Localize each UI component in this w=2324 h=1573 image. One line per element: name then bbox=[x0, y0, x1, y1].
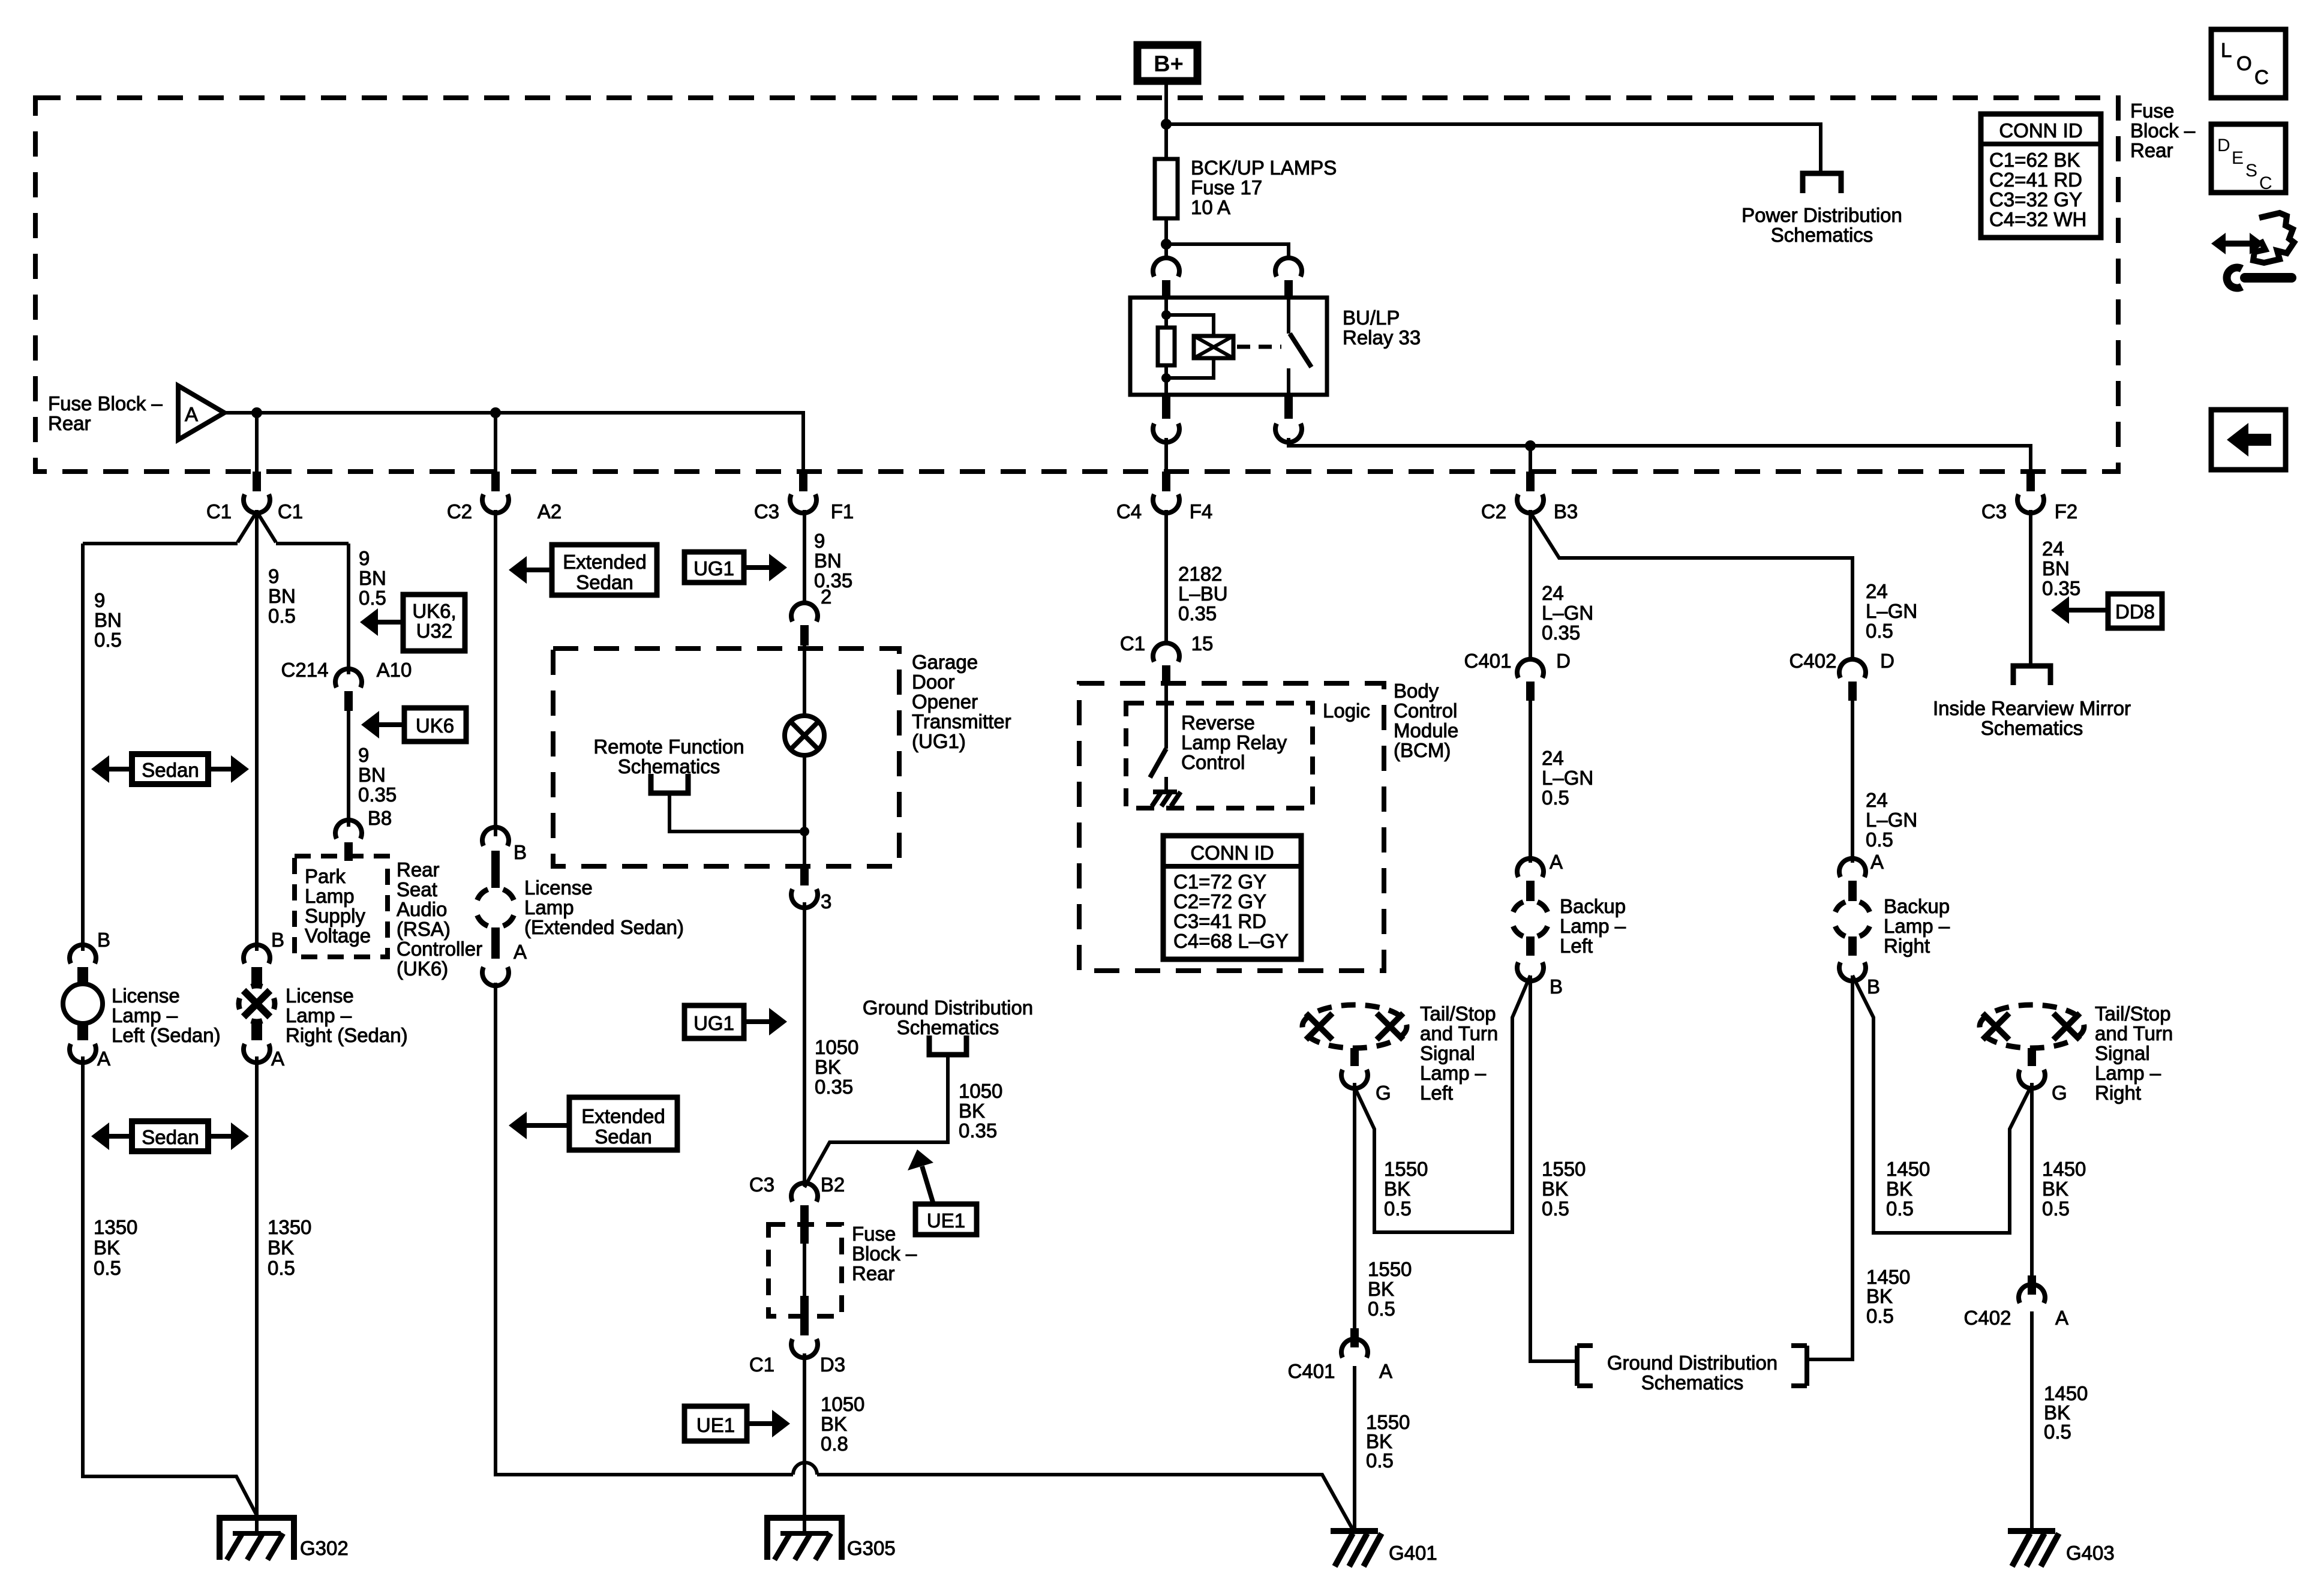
svg-text:Fuse: Fuse bbox=[2130, 100, 2174, 122]
svg-text:Body: Body bbox=[1394, 680, 1439, 702]
svg-text:0.5: 0.5 bbox=[2042, 1197, 2070, 1220]
svg-text:24: 24 bbox=[2042, 538, 2064, 560]
svg-text:C2: C2 bbox=[447, 500, 472, 523]
svg-text:Left: Left bbox=[1420, 1082, 1453, 1104]
svg-text:Lamp –: Lamp – bbox=[1884, 915, 1950, 937]
svg-text:Rear: Rear bbox=[852, 1262, 895, 1284]
svg-text:Left: Left bbox=[1560, 935, 1593, 957]
coil relay winding bbox=[1166, 315, 1214, 378]
wire lamp to node bbox=[803, 755, 806, 866]
svg-text:3: 3 bbox=[821, 890, 831, 912]
table CONN ID BCM bbox=[1163, 836, 1301, 959]
logic dashed box bbox=[1126, 703, 1313, 808]
svg-text:D: D bbox=[2217, 136, 2230, 155]
wire arrow UK6,U32 bbox=[377, 620, 403, 625]
svg-text:UE1: UE1 bbox=[696, 1414, 735, 1436]
wire through fuse block small box bbox=[803, 1224, 806, 1296]
svg-text:BK: BK bbox=[1384, 1178, 1410, 1200]
svg-text:C1: C1 bbox=[1120, 632, 1145, 655]
svg-text:Extended: Extended bbox=[581, 1105, 665, 1127]
svg-text:C214: C214 bbox=[281, 659, 329, 681]
connector relay pin 1 bbox=[1153, 258, 1179, 277]
svg-text:1350: 1350 bbox=[268, 1216, 311, 1238]
svg-text:C402: C402 bbox=[1964, 1307, 2011, 1329]
svg-text:0.5: 0.5 bbox=[1866, 828, 1893, 851]
wire backup left B to ground distribution bbox=[1530, 975, 1577, 1361]
svg-text:(RSA): (RSA) bbox=[397, 918, 451, 940]
svg-text:24: 24 bbox=[1542, 582, 1564, 604]
svg-text:Lamp –: Lamp – bbox=[2095, 1062, 2161, 1084]
icon LOC box bbox=[2211, 29, 2286, 98]
svg-text:L–GN: L–GN bbox=[1542, 767, 1593, 789]
svg-text:UE1: UE1 bbox=[927, 1209, 965, 1232]
lamp Tail Stop Turn Right bbox=[1980, 1005, 2084, 1048]
node junction to B3 bbox=[1525, 440, 1536, 451]
svg-text:Schematics: Schematics bbox=[897, 1016, 999, 1038]
wire backup right B to ground distribution bbox=[1807, 975, 1852, 1359]
fuse block Rear dashed border bbox=[35, 98, 2118, 472]
fuse F17 BCK/UP LAMPS 10A bbox=[1164, 124, 1168, 244]
icon DESC box bbox=[2211, 124, 2286, 193]
wire F1 column top bbox=[803, 510, 806, 605]
svg-text:0.5: 0.5 bbox=[268, 1257, 295, 1279]
connector relay pin 3 bbox=[1284, 395, 1293, 419]
svg-text:Lamp –: Lamp – bbox=[112, 1004, 178, 1026]
svg-text:Opener: Opener bbox=[912, 691, 978, 713]
svg-text:0.35: 0.35 bbox=[814, 569, 852, 592]
svg-text:B: B bbox=[1867, 975, 1880, 998]
svg-text:Right: Right bbox=[2095, 1082, 2141, 1104]
svg-text:C402: C402 bbox=[1789, 650, 1837, 672]
svg-text:B+: B+ bbox=[1154, 52, 1184, 77]
ground G305 bbox=[767, 1518, 842, 1560]
svg-text:0.35: 0.35 bbox=[959, 1119, 997, 1142]
svg-text:Fuse: Fuse bbox=[852, 1223, 896, 1245]
svg-text:B8: B8 bbox=[368, 807, 392, 829]
wire arrow Extended Sedan lower bbox=[526, 1123, 569, 1128]
svg-text:A: A bbox=[97, 1047, 110, 1070]
svg-text:B: B bbox=[271, 929, 284, 951]
wire arrow Extended Sedan upper bbox=[526, 568, 552, 572]
wire dashed actuation link bbox=[1237, 345, 1281, 349]
svg-text:24: 24 bbox=[1866, 580, 1888, 602]
svg-text:D: D bbox=[1880, 650, 1894, 672]
svg-text:0.5: 0.5 bbox=[268, 605, 296, 627]
svg-text:L–GN: L–GN bbox=[1542, 602, 1593, 624]
reference box UG1 lower bbox=[684, 1005, 744, 1038]
wire B3 column down bbox=[1529, 510, 1532, 661]
svg-text:Lamp –: Lamp – bbox=[1560, 915, 1626, 937]
wire ground distribution to B2 bbox=[804, 1053, 948, 1187]
node bus C1 bbox=[251, 407, 262, 418]
svg-text:B3: B3 bbox=[1554, 500, 1578, 523]
svg-text:0.5: 0.5 bbox=[1366, 1449, 1394, 1472]
svg-text:BK: BK bbox=[1866, 1285, 1893, 1307]
wire F2 column down bbox=[2029, 510, 2032, 666]
svg-text:1450: 1450 bbox=[1886, 1158, 1930, 1180]
lamp garage door opener bbox=[785, 716, 824, 755]
svg-text:0.5: 0.5 bbox=[1542, 1197, 1569, 1220]
svg-text:Lamp: Lamp bbox=[524, 896, 574, 918]
svg-text:Park: Park bbox=[305, 865, 346, 887]
svg-text:G302: G302 bbox=[300, 1537, 349, 1559]
svg-text:0.5: 0.5 bbox=[1866, 620, 1893, 642]
wire F1 column middle bbox=[803, 902, 806, 1186]
switch relay contact bbox=[1287, 298, 1290, 395]
connector B8 RSA bbox=[335, 820, 362, 839]
wire A2 column down bbox=[494, 510, 497, 836]
wire relay out right to F2 bbox=[1289, 438, 2031, 472]
svg-text:Supply: Supply bbox=[305, 905, 365, 927]
svg-text:BK: BK bbox=[815, 1056, 841, 1078]
garage door opener transmitter dashed box bbox=[553, 649, 899, 866]
svg-text:C4=68 L–GY: C4=68 L–GY bbox=[1173, 930, 1289, 952]
svg-text:(UK6): (UK6) bbox=[397, 957, 448, 980]
wire bus drop C1 bbox=[255, 413, 259, 472]
svg-text:License: License bbox=[286, 984, 354, 1007]
svg-text:C401: C401 bbox=[1288, 1360, 1335, 1382]
svg-text:0.8: 0.8 bbox=[821, 1433, 848, 1455]
reference box Sedan lower bbox=[132, 1121, 208, 1151]
reference box Extended Sedan upper bbox=[552, 545, 657, 595]
svg-text:A: A bbox=[185, 403, 198, 425]
svg-text:Control: Control bbox=[1394, 700, 1457, 722]
svg-text:L–BU: L–BU bbox=[1178, 583, 1228, 605]
svg-text:License: License bbox=[112, 984, 180, 1007]
svg-text:C3: C3 bbox=[749, 1173, 774, 1196]
svg-text:C1=62 BK: C1=62 BK bbox=[1989, 149, 2080, 171]
connector C2-A2 fuse block bbox=[491, 472, 500, 491]
svg-text:1550: 1550 bbox=[1542, 1158, 1586, 1180]
svg-text:Voltage: Voltage bbox=[305, 924, 371, 947]
svg-text:0.5: 0.5 bbox=[1368, 1298, 1395, 1320]
svg-text:BK: BK bbox=[2042, 1178, 2068, 1200]
off-page bracket ground distribution upper bbox=[929, 1035, 966, 1055]
svg-text:A: A bbox=[271, 1047, 284, 1070]
svg-text:Schematics: Schematics bbox=[1641, 1371, 1744, 1394]
wire arrow Sedan right bbox=[208, 767, 232, 772]
svg-text:Schematics: Schematics bbox=[1771, 224, 1873, 246]
svg-text:BK: BK bbox=[1368, 1278, 1394, 1300]
node fuse output junction bbox=[1161, 239, 1172, 250]
svg-text:Fuse 17: Fuse 17 bbox=[1191, 176, 1262, 199]
svg-text:L–GN: L–GN bbox=[1866, 600, 1917, 622]
svg-text:F2: F2 bbox=[2055, 500, 2078, 523]
svg-text:BN: BN bbox=[2042, 557, 2070, 580]
svg-text:A: A bbox=[1550, 851, 1563, 873]
svg-text:C1: C1 bbox=[749, 1353, 774, 1376]
svg-text:0.5: 0.5 bbox=[1866, 1305, 1894, 1327]
icon back arrow box bbox=[2211, 410, 2286, 470]
svg-text:1550: 1550 bbox=[1368, 1258, 1412, 1280]
body control module dashed box bbox=[1079, 683, 1384, 971]
wire arrow UG1 upper bbox=[744, 565, 770, 570]
svg-text:Extended: Extended bbox=[563, 551, 646, 573]
svg-text:CONN ID: CONN ID bbox=[1190, 842, 1274, 864]
wire B3 branch to C402 column bbox=[1530, 512, 1852, 661]
svg-text:BK: BK bbox=[94, 1236, 120, 1259]
reference box Sedan upper bbox=[132, 754, 208, 784]
svg-text:Ground Distribution: Ground Distribution bbox=[863, 996, 1033, 1019]
svg-text:Schematics: Schematics bbox=[618, 755, 720, 778]
svg-text:Backup: Backup bbox=[1884, 895, 1950, 917]
svg-text:Audio: Audio bbox=[397, 898, 447, 920]
svg-text:O: O bbox=[2236, 52, 2252, 74]
svg-text:2: 2 bbox=[821, 586, 831, 608]
svg-text:C401: C401 bbox=[1464, 650, 1512, 672]
wire C402-D to backup lamp right bbox=[1851, 701, 1854, 863]
svg-text:BCK/UP LAMPS: BCK/UP LAMPS bbox=[1191, 157, 1337, 179]
svg-text:CONN ID: CONN ID bbox=[1999, 119, 2082, 142]
relay BU/LP Relay 33 bbox=[1130, 298, 1327, 395]
svg-text:Right (Sedan): Right (Sedan) bbox=[286, 1024, 408, 1046]
off-page bracket ground distribution left bbox=[1577, 1346, 1593, 1386]
svg-text:UG1: UG1 bbox=[693, 1012, 734, 1034]
connector C3-F2 fuse block bbox=[2026, 472, 2035, 491]
svg-text:BK: BK bbox=[268, 1236, 294, 1259]
svg-text:and Turn: and Turn bbox=[2095, 1022, 2173, 1044]
svg-text:Control: Control bbox=[1181, 751, 1245, 773]
node bus junction bbox=[1161, 119, 1172, 130]
svg-text:UG1: UG1 bbox=[693, 557, 734, 580]
svg-text:9: 9 bbox=[268, 565, 279, 587]
reference box Extended Sedan lower bbox=[569, 1097, 677, 1150]
wire into garage lamp bbox=[803, 646, 806, 716]
svg-text:Sedan: Sedan bbox=[576, 571, 633, 593]
node Park Lamp Supply Voltage box bbox=[295, 856, 388, 957]
svg-text:C2=72 GY: C2=72 GY bbox=[1173, 890, 1266, 912]
wire junction to C2-B3 bbox=[1529, 446, 1532, 472]
svg-text:G403: G403 bbox=[2066, 1542, 2115, 1564]
svg-text:0.35: 0.35 bbox=[815, 1076, 853, 1098]
svg-text:C4=32 WH: C4=32 WH bbox=[1989, 208, 2086, 230]
svg-text:Right: Right bbox=[1884, 935, 1930, 957]
wire lamps to grounds bbox=[83, 1056, 256, 1514]
wire fuse to relay pins bbox=[1166, 244, 1289, 260]
svg-text:Sedan: Sedan bbox=[142, 759, 199, 781]
wire hop over G305 drop bbox=[793, 1463, 817, 1475]
svg-text:C2: C2 bbox=[1481, 500, 1506, 523]
svg-text:Schematics: Schematics bbox=[1981, 717, 2083, 739]
wire F4 column down bbox=[1164, 510, 1168, 645]
wire C214 to B8 bbox=[347, 711, 350, 827]
svg-text:9: 9 bbox=[358, 744, 369, 766]
svg-text:A: A bbox=[2055, 1307, 2068, 1329]
fuse block rear small dashed box bbox=[768, 1224, 842, 1316]
svg-text:Signal: Signal bbox=[2095, 1042, 2150, 1064]
svg-text:G: G bbox=[2052, 1082, 2067, 1104]
svg-text:Inside Rearview Mirror: Inside Rearview Mirror bbox=[1933, 697, 2131, 719]
wire arrow Sedan lower right bbox=[208, 1134, 232, 1139]
reference box UK6,U32 bbox=[403, 595, 465, 651]
svg-text:0.5: 0.5 bbox=[359, 587, 386, 609]
svg-text:C1: C1 bbox=[278, 500, 303, 523]
battery feed B+ bbox=[1137, 45, 1197, 81]
wire bus to power distribution bbox=[1166, 124, 1821, 173]
svg-text:BK: BK bbox=[1886, 1178, 1912, 1200]
svg-text:Backup: Backup bbox=[1560, 895, 1626, 917]
svg-text:BU/LP: BU/LP bbox=[1343, 307, 1400, 329]
svg-text:A: A bbox=[1870, 851, 1884, 873]
wire backup right B to tail lamp right join bbox=[1852, 975, 2031, 1233]
svg-text:D3: D3 bbox=[820, 1353, 845, 1376]
svg-text:Tail/Stop: Tail/Stop bbox=[1420, 1002, 1496, 1025]
wire arrow UG1 lower bbox=[744, 1019, 770, 1024]
svg-text:Left (Sedan): Left (Sedan) bbox=[112, 1024, 221, 1046]
reference box UE1 diagonal bbox=[915, 1204, 977, 1235]
svg-text:S: S bbox=[2245, 161, 2257, 181]
wire arrow UE1 lower bbox=[747, 1421, 773, 1426]
svg-text:Sedan: Sedan bbox=[594, 1125, 651, 1148]
svg-text:E: E bbox=[2232, 148, 2244, 168]
svg-text:U32: U32 bbox=[416, 620, 453, 642]
svg-text:UK6: UK6 bbox=[416, 715, 454, 737]
svg-text:Rear: Rear bbox=[2130, 139, 2173, 161]
svg-text:A10: A10 bbox=[377, 659, 412, 681]
reference box UG1 upper bbox=[684, 552, 744, 583]
svg-text:1550: 1550 bbox=[1384, 1158, 1428, 1180]
svg-text:BN: BN bbox=[268, 585, 296, 607]
svg-text:F4: F4 bbox=[1190, 500, 1213, 523]
svg-text:Lamp: Lamp bbox=[305, 885, 355, 907]
svg-text:A: A bbox=[1379, 1360, 1392, 1382]
svg-text:C3: C3 bbox=[754, 500, 779, 523]
svg-text:C: C bbox=[2259, 173, 2272, 193]
svg-text:BK: BK bbox=[1542, 1178, 1568, 1200]
svg-text:and Turn: and Turn bbox=[1420, 1022, 1498, 1044]
reference box DD8 bbox=[2108, 594, 2162, 628]
wire C402-A to G403 bbox=[2030, 1311, 2034, 1531]
svg-text:Ground Distribution: Ground Distribution bbox=[1607, 1352, 1777, 1374]
triangle A fuse block feed bbox=[178, 386, 224, 440]
svg-text:Garage: Garage bbox=[912, 651, 978, 673]
svg-text:B: B bbox=[514, 841, 527, 863]
svg-text:C4: C4 bbox=[1116, 500, 1142, 523]
svg-text:G401: G401 bbox=[1389, 1542, 1437, 1564]
svg-text:Block –: Block – bbox=[2130, 119, 2196, 142]
connector C4-F4 fuse block bbox=[1162, 472, 1170, 491]
svg-text:Reverse: Reverse bbox=[1181, 712, 1255, 734]
connector C402-A bbox=[2028, 1275, 2036, 1295]
wire C401-A to G401 bbox=[1353, 1366, 1356, 1531]
wire arrow DD8 bbox=[2068, 608, 2108, 613]
wire backup left B to tail lamp ground join bbox=[1355, 975, 1530, 1232]
svg-text:15: 15 bbox=[1191, 632, 1214, 655]
wire arrow UE1 diagonal bbox=[922, 1166, 933, 1204]
wire tail left G to C401-A bbox=[1353, 1083, 1356, 1328]
svg-text:Rear: Rear bbox=[48, 412, 91, 434]
svg-text:9: 9 bbox=[814, 530, 825, 552]
svg-text:Lamp –: Lamp – bbox=[1420, 1062, 1487, 1084]
svg-text:C1: C1 bbox=[206, 500, 232, 523]
svg-text:L–GN: L–GN bbox=[1866, 809, 1917, 831]
svg-text:Seat: Seat bbox=[397, 878, 437, 900]
svg-text:C1=72 GY: C1=72 GY bbox=[1173, 870, 1266, 893]
svg-text:0.5: 0.5 bbox=[2044, 1421, 2071, 1443]
svg-text:A: A bbox=[514, 941, 527, 963]
svg-text:BK: BK bbox=[821, 1413, 847, 1435]
svg-text:1050: 1050 bbox=[815, 1036, 858, 1058]
svg-text:9: 9 bbox=[94, 589, 105, 611]
svg-text:0.35: 0.35 bbox=[2042, 577, 2080, 599]
connector C2-B3 fuse block bbox=[1526, 472, 1535, 491]
svg-text:1050: 1050 bbox=[959, 1080, 1002, 1102]
reference box UK6 bbox=[404, 708, 466, 742]
svg-text:0.5: 0.5 bbox=[1886, 1197, 1914, 1220]
svg-text:A2: A2 bbox=[538, 500, 562, 523]
ground G302 bbox=[220, 1518, 294, 1560]
svg-text:Lamp Relay: Lamp Relay bbox=[1181, 731, 1287, 754]
wire left branch down bbox=[81, 544, 85, 951]
svg-text:C3=41 RD: C3=41 RD bbox=[1173, 910, 1266, 932]
svg-text:C: C bbox=[2254, 66, 2269, 88]
svg-text:G: G bbox=[1376, 1082, 1391, 1104]
svg-text:0.5: 0.5 bbox=[94, 629, 122, 651]
svg-text:Signal: Signal bbox=[1420, 1042, 1475, 1064]
svg-text:B: B bbox=[1550, 975, 1563, 998]
connector pin 3 garage door opener bbox=[800, 866, 809, 885]
connector C1-D3 bbox=[791, 1339, 818, 1358]
svg-text:BN: BN bbox=[814, 550, 842, 572]
svg-text:0.5: 0.5 bbox=[1384, 1197, 1412, 1220]
node garage lamp junction bbox=[800, 827, 809, 836]
connector relay pin 4 bbox=[1162, 395, 1170, 419]
svg-text:0.35: 0.35 bbox=[1542, 622, 1580, 644]
svg-text:DD8: DD8 bbox=[2115, 601, 2155, 623]
off-page bracket Power Distribution bbox=[1803, 173, 1841, 193]
svg-text:Sedan: Sedan bbox=[142, 1126, 199, 1148]
node bus A2 bbox=[490, 407, 501, 418]
svg-text:Module: Module bbox=[1394, 719, 1458, 742]
connector C401-A bbox=[1350, 1328, 1359, 1347]
svg-text:Power Distribution: Power Distribution bbox=[1742, 204, 1902, 226]
wire remote function to lamp node bbox=[669, 792, 804, 831]
svg-text:0.5: 0.5 bbox=[1542, 786, 1569, 809]
svg-text:Door: Door bbox=[912, 671, 955, 693]
svg-text:Logic: Logic bbox=[1323, 700, 1370, 722]
off-page bracket inside rearview mirror bbox=[2013, 666, 2050, 685]
svg-text:(Extended Sedan): (Extended Sedan) bbox=[524, 916, 684, 938]
svg-text:BN: BN bbox=[94, 609, 122, 631]
off-page bracket remote function bbox=[651, 774, 688, 793]
svg-text:24: 24 bbox=[1542, 747, 1564, 769]
svg-text:0.35: 0.35 bbox=[358, 784, 397, 806]
svg-text:10 A: 10 A bbox=[1191, 196, 1230, 218]
svg-text:Rear: Rear bbox=[397, 858, 440, 881]
svg-text:B2: B2 bbox=[821, 1173, 845, 1196]
svg-text:Tail/Stop: Tail/Stop bbox=[2095, 1002, 2171, 1025]
svg-text:2182: 2182 bbox=[1178, 563, 1222, 585]
wire C401-D to backup lamp bbox=[1529, 701, 1532, 863]
connector C1 fuse block bbox=[253, 472, 261, 491]
svg-text:D: D bbox=[1556, 650, 1571, 672]
ground BCM internal bbox=[1152, 792, 1181, 806]
wire B+ to bus bbox=[1164, 85, 1168, 124]
table CONN ID fuse block bbox=[1981, 114, 2101, 238]
svg-text:Relay 33: Relay 33 bbox=[1343, 326, 1421, 349]
svg-text:C3=32 GY: C3=32 GY bbox=[1989, 188, 2082, 211]
wire bus drop A2 bbox=[494, 413, 497, 472]
svg-text:F1: F1 bbox=[831, 500, 854, 523]
wire bus A to C3 bbox=[224, 413, 803, 472]
svg-text:BN: BN bbox=[359, 567, 386, 589]
connector relay pin 2 bbox=[1275, 258, 1302, 277]
wire A2 lamp to ground bus bbox=[496, 983, 1354, 1532]
off-page bracket ground distribution right bbox=[1791, 1346, 1807, 1386]
svg-text:(UG1): (UG1) bbox=[912, 730, 966, 752]
switch reverse lamp relay control bbox=[1164, 685, 1168, 749]
svg-text:9: 9 bbox=[359, 547, 370, 569]
